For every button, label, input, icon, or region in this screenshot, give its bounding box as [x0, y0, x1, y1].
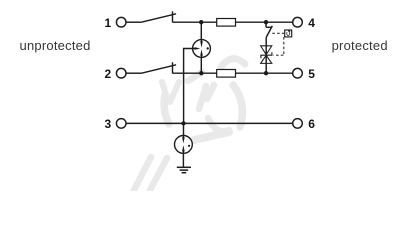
- watermark inner hook: [208, 118, 229, 132]
- gdt2 bottom arrow: [182, 145, 185, 151]
- gas discharge tube F1 circle: [193, 40, 211, 58]
- gdt1 left arrow: [195, 47, 201, 50]
- tvs diode top triangle: [261, 46, 272, 55]
- svg-text:1: 1: [105, 16, 112, 30]
- watermark inner fork: [199, 85, 214, 109]
- theta indicator box: [285, 30, 292, 37]
- ground bar 3: [182, 172, 187, 174]
- terminal circle 1: [116, 17, 126, 27]
- terminal circle 6: [293, 119, 303, 129]
- terminal circle 4: [293, 17, 303, 27]
- wire row2 mid: [173, 72, 217, 74]
- terminal number labels: [105, 16, 316, 131]
- gdt2 dot electrode: [188, 145, 190, 147]
- switch tick row1: [172, 11, 174, 22]
- wire tvs vertical: [265, 37, 267, 73]
- svg-text:6: 6: [308, 117, 315, 131]
- watermark letter stroke 2: [150, 158, 167, 190]
- thermal disconnect tick: [266, 26, 272, 28]
- node row3-gdt2: [181, 121, 185, 125]
- wire row3: [126, 122, 293, 124]
- gdt2 top arrow: [182, 137, 185, 143]
- gdt1 top arrow: [200, 41, 203, 48]
- switch blade row1: [141, 14, 176, 22]
- wire gdt2 top lead: [183, 123, 185, 136]
- switch blade row2: [142, 65, 177, 73]
- gas discharge tube F2 circle: [175, 136, 193, 154]
- resistor R1: [217, 19, 236, 27]
- watermark band upper mid: [188, 72, 202, 81]
- node row1-tvs: [264, 20, 268, 24]
- watermark band upper right arch: [221, 59, 245, 67]
- ground bar 1: [177, 166, 191, 168]
- junction dots and arrowheads: [181, 20, 268, 153]
- tvs center bar with hooks: [261, 52, 272, 58]
- svg-text:4: 4: [308, 16, 315, 30]
- wire row1 mid: [173, 21, 217, 23]
- gdt1 center electrode wire: [184, 49, 197, 124]
- terminal circle 2: [116, 68, 126, 78]
- resistor R2: [217, 70, 236, 78]
- tvs diode bottom triangle: [261, 55, 272, 63]
- node row1-gdt1: [199, 20, 203, 24]
- terminal circle 5: [293, 68, 303, 78]
- svg-text:3: 3: [105, 117, 112, 131]
- watermark band lower: [194, 132, 229, 140]
- svg-text:protected: protected: [332, 38, 388, 53]
- svg-text:2: 2: [105, 67, 112, 81]
- theta glyph: [287, 31, 290, 36]
- side labels: [20, 38, 388, 53]
- watermark right arc: [233, 85, 242, 127]
- wire row2 left: [126, 72, 142, 74]
- node row2-gdt1: [199, 71, 203, 75]
- gdt1 bottom arrow: [200, 49, 203, 56]
- wire row1 left: [126, 21, 141, 23]
- dashed sensing line: [272, 33, 284, 55]
- thermal disconnect blade: [266, 26, 272, 38]
- watermark logo (light gray): [134, 59, 245, 190]
- thermal disconnect stub: [265, 22, 267, 27]
- wire row2 right: [236, 72, 293, 74]
- watermark letter stroke 1: [134, 157, 151, 190]
- watermark left arc: [164, 95, 169, 124]
- wire gdt2 to ground: [182, 153, 184, 167]
- node row2-tvs: [264, 71, 268, 75]
- watermark V wedge: [162, 82, 179, 102]
- wire gdt1 bottom lead: [200, 57, 202, 73]
- ground bar 2: [180, 169, 189, 171]
- wire gdt1 top lead: [200, 22, 202, 40]
- wire row1 right: [236, 21, 293, 23]
- svg-text:unprotected: unprotected: [20, 38, 91, 53]
- svg-text:5: 5: [308, 67, 315, 81]
- gdt1 dot electrode: [207, 47, 209, 49]
- switch tick row2: [172, 62, 174, 73]
- terminal circle 3: [116, 119, 126, 129]
